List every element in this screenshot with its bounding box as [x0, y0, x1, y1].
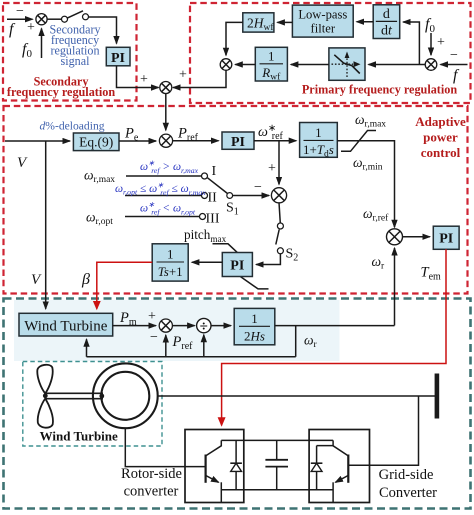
svg-text:1: 1 [315, 125, 322, 140]
red wire Tem to rotor-side converter [222, 249, 446, 425]
wire sum D to PI E, label Pref [173, 140, 219, 142]
svg-text:d: d [383, 7, 390, 22]
wire d/dt to low-pass filter [357, 21, 374, 23]
wire Eq.(9) to sum D, label Pe [119, 140, 156, 142]
wire B to deadband with branch to d/dt [369, 64, 426, 66]
wire f0 down into B [430, 33, 432, 55]
svg-text:÷: ÷ [200, 319, 208, 335]
svg-text:Adaptive: Adaptive [415, 114, 466, 129]
title secondary frequency regulation [7, 75, 115, 100]
svg-text:Pe: Pe [124, 126, 139, 144]
secondary frequency regulation dashed box [3, 3, 137, 101]
grid-side converter box [309, 430, 369, 503]
svg-text:+: + [437, 35, 445, 50]
wire S2 to pitch PI [256, 254, 280, 265]
S2 top contact circle [277, 223, 283, 229]
svg-text:Grid-side: Grid-side [379, 467, 434, 483]
block Eq.(9) [73, 133, 119, 151]
svg-text:V: V [17, 155, 28, 171]
svg-text:signal: signal [61, 54, 91, 68]
primary frequency regulation dashed box [190, 3, 471, 103]
label grid-side converter [379, 467, 438, 501]
svg-text:PI: PI [439, 232, 453, 247]
svg-text:f: f [453, 67, 460, 84]
svg-text:power: power [423, 130, 458, 145]
svg-text:pitchmax: pitchmax [184, 227, 227, 244]
wire Pref riser into sum I [165, 335, 167, 357]
block pitch PI [222, 253, 252, 277]
svg-text:d%-deloading: d%-deloading [40, 120, 105, 133]
RSC IGBT Q1 [185, 440, 221, 502]
bottom system dashed box (teal) [4, 299, 471, 509]
svg-text:I: I [212, 164, 217, 179]
svg-text:S1: S1 [226, 201, 239, 218]
svg-text:III: III [206, 212, 220, 227]
svg-text:−: − [254, 180, 262, 195]
dc link bottom wire [221, 489, 333, 491]
red wire beta to wind turbine [97, 262, 152, 309]
svg-text:PI: PI [231, 135, 245, 150]
S2 lever [276, 230, 279, 245]
summing junction I (Pm-Pref) [159, 319, 172, 332]
svg-text:f: f [9, 21, 16, 38]
label rotor-side converter [121, 466, 182, 500]
svg-text:converter: converter [124, 484, 179, 500]
svg-text:Wind Turbine: Wind Turbine [24, 319, 108, 335]
svg-text:1: 1 [167, 247, 174, 262]
switch S1 lever [208, 178, 228, 194]
wire sum C down to sum D [165, 94, 167, 131]
saturation limiter glyph [341, 131, 376, 152]
svg-text:1+Tds: 1+Tds [303, 142, 334, 160]
svg-text:Ts+1: Ts+1 [158, 264, 183, 279]
svg-text:S2: S2 [286, 247, 299, 264]
svg-text:−: − [150, 330, 158, 345]
grid bus bar [435, 374, 440, 419]
svg-text:II: II [208, 191, 218, 206]
switch lever [67, 11, 83, 18]
wire f right into B [441, 64, 468, 66]
block PI E [222, 132, 254, 150]
svg-text:+: + [27, 20, 35, 35]
adaptive power control dashed box [4, 106, 468, 294]
svg-text:ωr: ωr [372, 254, 386, 272]
divide junction J [197, 318, 211, 335]
wire Td block right then down to sum G [337, 141, 394, 228]
block deadband [329, 48, 365, 80]
svg-text:ωr,max: ωr,max [355, 112, 386, 130]
svg-text:ω∗ref: ω∗ref [258, 123, 284, 142]
svg-text:+: + [148, 309, 156, 324]
wind turbine inner dashed box (teal) [23, 362, 162, 447]
dc capacitor [265, 440, 288, 489]
svg-text:+: + [268, 161, 276, 176]
pitch PI limiter diagonal bottom-right [241, 277, 269, 289]
svg-text:Wind Turbine: Wind Turbine [40, 429, 118, 444]
wire f0 input [41, 29, 43, 59]
contact circle II [202, 193, 208, 199]
turbine blade upper [37, 365, 52, 394]
svg-text:β: β [81, 271, 90, 288]
summing junction C [160, 82, 172, 94]
svg-text:V: V [31, 272, 42, 288]
wire PI to sum C [117, 66, 159, 88]
block 1/(1+Tds) [300, 123, 338, 160]
title adaptive power control [415, 114, 466, 160]
svg-text:ωr,min: ωr,min [353, 155, 383, 173]
block PI secondary [106, 47, 130, 66]
wire sum I to divide J [172, 325, 194, 327]
svg-text:Tem: Tem [421, 265, 442, 283]
svg-text:+: + [140, 72, 148, 87]
summing junction A [36, 14, 47, 25]
branch wire w*ref down to sum F [278, 141, 280, 185]
summing junction B (f0-f right) [425, 59, 437, 71]
wire sum F down to S2 top contact [279, 202, 280, 223]
svg-text:ωr,opt ≤ ω∗ref ≤ ωr,max: ωr,opt ≤ ω∗ref ≤ ωr,max [115, 181, 206, 198]
wire Wind Turbine to sum I, label Pm [113, 325, 156, 327]
wire wr riser into sum G [394, 248, 396, 326]
block 2Hwf [243, 13, 275, 33]
svg-text:control: control [421, 145, 461, 160]
switch contact circle left [62, 16, 68, 22]
switch line III [125, 216, 200, 218]
svg-text:Primary frequency regulation: Primary frequency regulation [302, 83, 457, 97]
svg-text:−: − [450, 48, 458, 63]
wire PI E to Td block [254, 140, 296, 142]
wire feedback riser into Wind Turbine [86, 339, 88, 357]
wire 1/(2Hs) output to wr riser [275, 325, 395, 327]
GSC IGBT Q2 [333, 440, 369, 502]
svg-text:ωr,opt: ωr,opt [86, 210, 113, 228]
switch S1 pivot circle [227, 193, 233, 199]
svg-text:f0: f0 [425, 16, 435, 35]
turbine hub dot [43, 393, 48, 398]
wire 1/Rwf to sum P [235, 64, 255, 66]
wire low-pass filter to 2Hwf [277, 21, 292, 23]
wire pitch PI to 1/(Ts+1) [192, 261, 222, 263]
switch pivot circle right [83, 14, 89, 20]
light blue tint region behind bottom model strip [14, 300, 340, 361]
turbine blade lower [38, 399, 53, 428]
pitch PI limiter diagonal top-left [213, 244, 238, 253]
wire output branch down to feedback line [295, 326, 297, 357]
wire S1 to sum F [233, 195, 269, 197]
svg-text:ω∗ref > ωr,max: ω∗ref > ωr,max [140, 159, 199, 176]
feedback wire wr [87, 356, 296, 358]
svg-text:PI: PI [111, 51, 125, 66]
svg-text:−: − [16, 4, 24, 19]
block PI K (torque) [433, 226, 459, 249]
wire generator to rotor-side converter [125, 428, 185, 466]
svg-text:f0: f0 [22, 41, 32, 60]
svg-text:Converter: Converter [379, 485, 437, 501]
wire V input to Eq.(9) [5, 140, 70, 142]
wire deadband to 1/Rwf [291, 64, 329, 66]
block 1/Rwf [255, 47, 287, 82]
wire junction A to switch [47, 18, 62, 20]
generator outer circle [93, 363, 158, 428]
block d/dt [373, 5, 400, 39]
svg-text:Rotor-side: Rotor-side [121, 466, 182, 482]
wire branch up to d/dt [403, 22, 419, 65]
summing junction P (primary) [220, 59, 232, 71]
wire sum G to PI K [403, 236, 430, 238]
svg-text:ωr,ref: ωr,ref [363, 206, 389, 224]
contact circle I [202, 173, 208, 179]
svg-text:1: 1 [251, 311, 258, 326]
block 1/(Ts+1) [152, 244, 188, 281]
block Wind Turbine [19, 313, 113, 336]
svg-text:PI: PI [230, 259, 244, 274]
svg-text:Low-pass: Low-pass [298, 7, 347, 21]
wire switch to PI [88, 17, 116, 44]
GSC diode D2 [311, 446, 333, 490]
wire f input [7, 18, 33, 20]
wire wr riser into divide J [203, 335, 205, 357]
rotor-side converter box [185, 430, 244, 503]
contact circle III [200, 214, 206, 220]
wire P down-left to sum C [173, 70, 226, 87]
wire 2Hwf down to sum P [226, 22, 243, 55]
svg-text:dt: dt [381, 23, 393, 38]
turbine shaft double line [46, 393, 103, 398]
summing junction G (wr,ref/wr) [387, 229, 403, 245]
svg-text:1: 1 [268, 49, 275, 64]
generator inner circle [101, 372, 149, 420]
svg-text:+: + [179, 68, 187, 83]
S2 pivot circle [277, 248, 283, 254]
RSC diode D1 [230, 440, 242, 489]
svg-text:Eq.(9): Eq.(9) [79, 135, 113, 150]
svg-text:ωr,max: ωr,max [84, 168, 115, 186]
svg-text:Pref: Pref [177, 126, 199, 144]
svg-text:2Hs: 2Hs [244, 328, 265, 343]
summing junction F [271, 188, 286, 203]
summing junction D (Pe/Pref) [159, 134, 172, 147]
svg-text:frequency regulation: frequency regulation [7, 85, 115, 99]
dc link top wire [221, 439, 333, 441]
shaft end dot [99, 394, 104, 399]
wire generator to grid bus [158, 395, 435, 397]
switch line I [126, 175, 202, 177]
svg-text:ω∗ref < ωr,opt: ω∗ref < ωr,opt [140, 200, 196, 217]
wire V riser to wind turbine [45, 141, 47, 309]
block low-pass filter [292, 5, 353, 37]
label secondary frequency regulation signal [49, 23, 100, 68]
svg-text:filter: filter [311, 21, 336, 35]
switch line II [125, 195, 202, 197]
block 1/(2Hs) [234, 308, 275, 344]
wire divide J to 1/(2Hs) [211, 325, 231, 327]
wire bus branch to grid-side converter [370, 396, 419, 465]
